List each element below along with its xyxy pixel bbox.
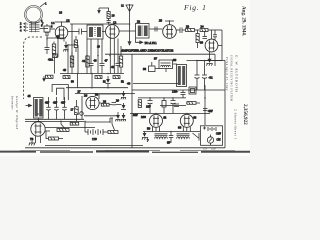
filter cap C14 xyxy=(138,98,186,108)
svg-text:14: 14 xyxy=(51,21,55,25)
capacitor C5 xyxy=(203,31,208,39)
svg-text:41F: 41F xyxy=(53,102,58,105)
svg-text:11F: 11F xyxy=(203,148,208,151)
resistor R3 xyxy=(182,29,199,32)
TO AVC elbow xyxy=(136,39,143,44)
IF transformer T1 xyxy=(87,25,103,39)
bypass capacitor C25 xyxy=(54,97,58,119)
V3 output capacitor C4 xyxy=(176,28,182,34)
heater bus pair xyxy=(25,119,84,121)
tuning capacitor C1 xyxy=(44,24,50,40)
svg-text:TO A.V.C.: TO A.V.C. xyxy=(145,41,158,45)
antenna coupling coil L2 xyxy=(29,22,40,33)
top right wire xyxy=(187,61,226,89)
svg-text:SIGNAL RECEIVING SYSTEM: SIGNAL RECEIVING SYSTEM xyxy=(230,55,233,102)
svg-text:OFF: OFF xyxy=(216,133,221,136)
dashed cabinet boundary xyxy=(24,37,43,99)
speaker box xyxy=(189,87,196,94)
bypass capacitor C8 xyxy=(116,64,121,66)
svg-text:11B: 11B xyxy=(211,148,216,151)
resistor R11 xyxy=(101,103,109,106)
resistor R2 xyxy=(107,8,111,24)
bypass capacitor C26 xyxy=(62,97,66,119)
coupling cap C19 xyxy=(174,104,179,107)
capacitor C23 xyxy=(213,30,217,40)
svg-text:Fig. 1: Fig. 1 xyxy=(183,3,207,12)
cluster node 42 xyxy=(53,54,58,58)
capacitor C13 xyxy=(203,109,208,111)
V1 screen feed wire xyxy=(71,24,73,56)
filter bus xyxy=(143,131,200,133)
antenna A1 xyxy=(126,4,134,24)
capacitor C3 xyxy=(155,27,157,32)
B+ arrow b xyxy=(121,103,126,110)
extra vertical wire xyxy=(113,38,115,74)
ground arrow left xyxy=(43,76,45,81)
svg-text:56: 56 xyxy=(95,93,99,97)
svg-text:200: 200 xyxy=(141,115,146,119)
svg-text:12: 12 xyxy=(113,21,117,25)
svg-text:AMPLIFIER AND DEMODULATOR: AMPLIFIER AND DEMODULATOR xyxy=(120,49,174,53)
screen resistor R19 xyxy=(86,56,89,67)
det coil small box xyxy=(149,66,156,72)
screen resistor R17 xyxy=(70,56,73,67)
electrolytic C16 xyxy=(162,98,166,113)
V2 side leads xyxy=(102,30,136,33)
capacitor C17 xyxy=(171,98,176,113)
pilot meter M1 xyxy=(207,135,213,146)
TO AVC arrow xyxy=(128,24,131,45)
ground arrow right xyxy=(206,52,212,66)
decoupling verticals xyxy=(78,74,109,88)
resistor R12 xyxy=(46,131,63,140)
V6 output wires xyxy=(45,128,95,132)
wire V5 plate right xyxy=(99,94,122,103)
tube V5 xyxy=(86,96,99,109)
svg-text:8F: 8F xyxy=(167,141,171,145)
power box outline xyxy=(132,54,225,148)
svg-text:80: 80 xyxy=(178,126,182,130)
svg-text:24: 24 xyxy=(201,25,205,29)
bypass capacitor C24 xyxy=(46,97,50,119)
wire C1 to V1 grid xyxy=(50,28,55,30)
resistor R4 xyxy=(200,29,222,32)
wire right drop xyxy=(221,30,223,61)
svg-text:42F: 42F xyxy=(208,109,213,113)
screen bus verticals xyxy=(68,37,118,74)
resistor R6 xyxy=(63,76,70,79)
output tubes top bus xyxy=(130,106,210,114)
resistor R7 xyxy=(95,76,102,79)
ground arrow mid xyxy=(106,76,111,84)
tube V1 xyxy=(55,26,68,39)
demodulator coil box T4 xyxy=(159,60,173,69)
svg-text:-31: -31 xyxy=(209,76,214,80)
T3 tuning arrow xyxy=(26,104,32,107)
svg-text:47: 47 xyxy=(105,59,109,63)
svg-text:42A: 42A xyxy=(48,58,54,62)
svg-text:22: 22 xyxy=(137,20,141,24)
resistor R1 xyxy=(74,36,77,52)
page edge smudge xyxy=(0,150,250,152)
tube V3 xyxy=(163,25,177,39)
svg-text:30: 30 xyxy=(200,41,204,45)
svg-text:11: 11 xyxy=(121,4,124,8)
svg-text:97: 97 xyxy=(154,57,158,61)
B+ arrow c xyxy=(121,113,126,121)
svg-text:41F: 41F xyxy=(61,102,66,105)
loop antenna L1 xyxy=(25,3,46,24)
filter choke L3 xyxy=(155,134,168,139)
power switch S1 xyxy=(193,133,200,141)
interstage transformer T3 xyxy=(34,98,44,119)
svg-text:120-: 120- xyxy=(172,90,178,94)
V6 top lead xyxy=(37,118,39,122)
svg-text:98: 98 xyxy=(143,67,147,71)
resistor R10 xyxy=(70,122,79,125)
IF transformer T5 xyxy=(177,65,187,87)
grid bus xyxy=(75,93,135,95)
tube V6 xyxy=(31,122,45,136)
tuning arrows on L2 xyxy=(24,23,29,32)
bottom bus xyxy=(25,147,225,149)
V1 grid cap lead xyxy=(55,22,70,26)
svg-text:25: 25 xyxy=(159,19,163,23)
V4 top lead xyxy=(211,30,213,39)
V6 cathode leads xyxy=(36,136,41,144)
screen resistor R18 xyxy=(119,46,122,74)
svg-text:40: 40 xyxy=(127,82,131,86)
bottom bus 2 xyxy=(45,145,143,147)
resistor R5 xyxy=(196,30,199,48)
power supply box xyxy=(201,126,223,146)
IF transformer T2 xyxy=(136,24,150,39)
nested feed corners xyxy=(52,85,68,101)
wire grid bus xyxy=(70,23,130,25)
svg-text:2,356,922: 2,356,922 xyxy=(242,104,248,125)
svg-text:48: 48 xyxy=(111,65,115,69)
svg-text:Aug. 29, 1944.: Aug. 29, 1944. xyxy=(241,6,246,37)
tube V4 xyxy=(205,39,218,52)
svg-text:26: 26 xyxy=(84,94,88,98)
V7 cathode leads xyxy=(153,127,160,132)
tube V2 xyxy=(106,25,120,39)
svg-text:Filed April 27, 1942: Filed April 27, 1942 xyxy=(225,56,228,91)
svg-text:2 Sheets-Sheet 1: 2 Sheets-Sheet 1 xyxy=(234,109,238,140)
capacitor C10 xyxy=(109,103,121,105)
svg-text:Inventor:: Inventor: xyxy=(11,95,15,111)
AVC arrow xyxy=(98,8,109,13)
svg-text:ON: ON xyxy=(217,139,221,142)
V3 grid cap xyxy=(165,21,174,25)
junction dots xyxy=(37,20,206,132)
svg-text:110: 110 xyxy=(92,137,97,141)
AVC bus xyxy=(66,87,128,89)
resistor R9 xyxy=(75,100,79,121)
wire plate to right xyxy=(196,46,222,61)
cluster drop wire xyxy=(54,58,56,74)
wire coil to tuning capacitor xyxy=(40,28,49,30)
filter choke L4 xyxy=(177,134,190,139)
rheostat R14 xyxy=(108,118,118,134)
svg-text:44: 44 xyxy=(82,59,86,63)
electrolytic C11 xyxy=(195,61,200,91)
wire det box xyxy=(152,62,159,69)
capacitor C21 xyxy=(45,42,50,54)
svg-text:G. W. ELTGROTH: G. W. ELTGROTH xyxy=(235,55,239,92)
tube V8 xyxy=(180,114,193,127)
svg-text:45: 45 xyxy=(28,94,32,98)
tube V7 xyxy=(150,114,163,127)
resistor R8 xyxy=(113,76,120,79)
left verticals xyxy=(81,96,83,119)
svg-text:15: 15 xyxy=(66,19,70,23)
electrolytic C12 xyxy=(202,61,207,91)
svg-text:30F: 30F xyxy=(133,113,138,117)
svg-text:99: 99 xyxy=(173,58,177,62)
resistor R15 xyxy=(186,102,200,105)
svg-text:George W. Eltgroth: George W. Eltgroth xyxy=(15,96,19,130)
svg-text:10F: 10F xyxy=(146,105,151,109)
svg-text:16: 16 xyxy=(59,11,63,15)
ground arrow battery xyxy=(115,112,120,121)
bypass capacitor C6 xyxy=(89,64,94,74)
V8 cathode leads xyxy=(183,127,190,132)
heater jack xyxy=(80,112,84,116)
resistor R20 xyxy=(46,75,54,78)
svg-text:23: 23 xyxy=(186,25,190,29)
svg-text:10: 10 xyxy=(112,14,116,18)
svg-text:29: 29 xyxy=(116,99,120,103)
ground arrow 41a xyxy=(63,42,68,52)
svg-text:43: 43 xyxy=(56,35,60,39)
svg-text:49: 49 xyxy=(63,68,67,72)
svg-text:28: 28 xyxy=(103,100,107,104)
wire T4 xyxy=(166,64,177,72)
capacitor C18 xyxy=(181,90,186,98)
ground left power xyxy=(142,132,148,140)
long B+ vertical xyxy=(204,85,206,125)
svg-text:59: 59 xyxy=(147,127,151,131)
capacitor C15 xyxy=(148,98,153,113)
long separator wire xyxy=(105,54,215,66)
filter cap C20 xyxy=(169,132,174,144)
svg-text:27: 27 xyxy=(78,90,82,94)
bottom-left ground xyxy=(29,138,35,145)
V1 plate coupling capacitor C2 xyxy=(68,29,87,35)
junction node a xyxy=(57,37,58,38)
B+ arrow a xyxy=(121,91,126,99)
volume potentiometer R13 xyxy=(57,121,69,132)
svg-text:46: 46 xyxy=(94,59,98,63)
heater bus xyxy=(84,115,118,117)
bypass capacitor C7 xyxy=(100,64,105,74)
battery B1 xyxy=(85,121,108,135)
wire T2 to V3 xyxy=(150,28,163,30)
wire V1 cathode drop xyxy=(47,38,66,57)
screen bus xyxy=(60,73,124,75)
wire 40 line xyxy=(133,83,180,85)
svg-text:41F: 41F xyxy=(45,102,50,105)
wire battery top xyxy=(85,118,113,122)
cathode resistor R16 xyxy=(52,42,55,58)
